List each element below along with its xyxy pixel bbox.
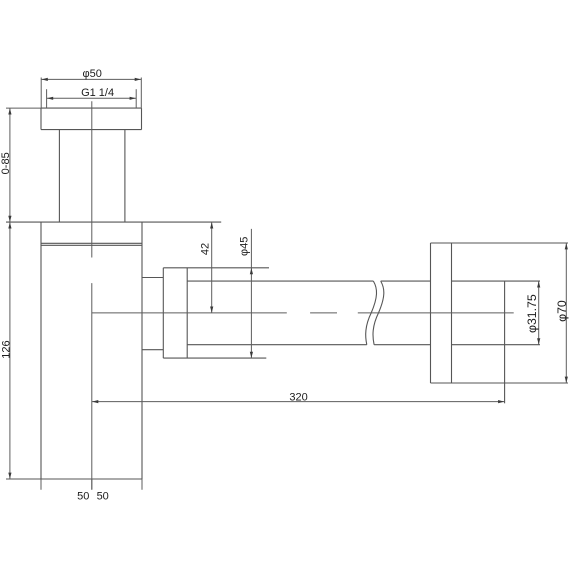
svg-text:320: 320 bbox=[289, 391, 307, 403]
svg-text:φ31.75: φ31.75 bbox=[525, 294, 539, 333]
svg-text:φ45: φ45 bbox=[239, 237, 251, 256]
svg-text:50: 50 bbox=[77, 491, 89, 503]
svg-text:50: 50 bbox=[97, 491, 109, 503]
svg-text:42: 42 bbox=[199, 243, 211, 255]
svg-text:φ50: φ50 bbox=[83, 68, 102, 80]
svg-text:126: 126 bbox=[1, 340, 13, 358]
svg-text:0-85: 0-85 bbox=[0, 152, 12, 174]
svg-text:G1 1/4: G1 1/4 bbox=[81, 87, 114, 99]
svg-text:φ70: φ70 bbox=[555, 300, 569, 322]
